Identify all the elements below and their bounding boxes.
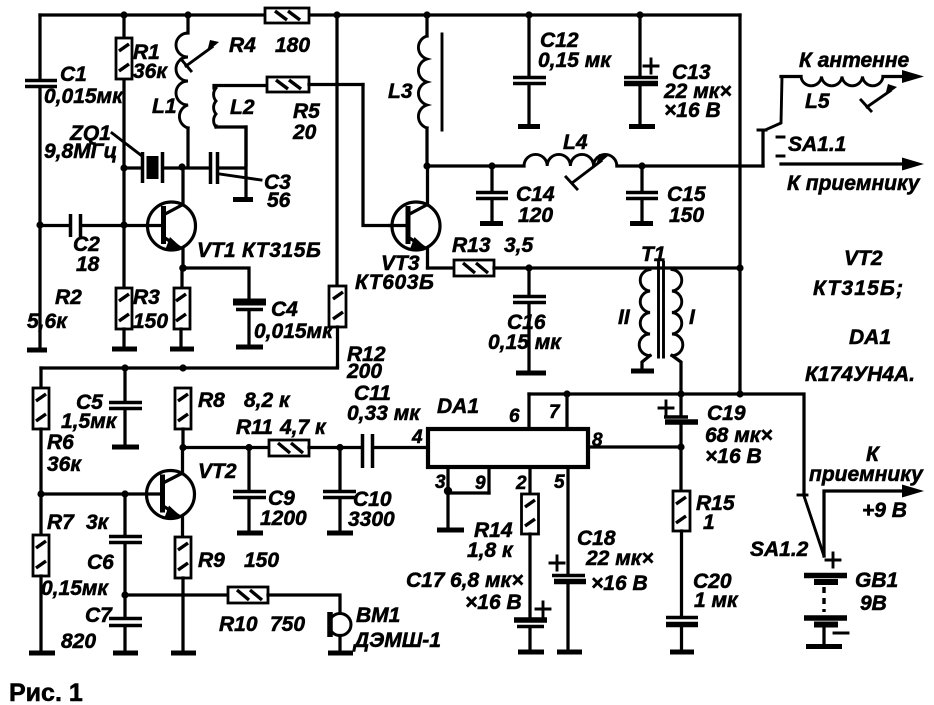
resistor R9 bbox=[175, 537, 191, 650]
svg-text:DA1: DA1 bbox=[437, 395, 479, 418]
junction dot L3 top bbox=[423, 11, 430, 18]
svg-text:150: 150 bbox=[244, 549, 279, 572]
quartz crystal ZQ1 bbox=[124, 152, 182, 183]
wire +9V branch bbox=[824, 491, 906, 556]
resistor R7 bbox=[33, 494, 49, 650]
junction dot C14 top bbox=[488, 162, 495, 169]
svg-text:К приемнику: К приемнику bbox=[787, 172, 921, 195]
arrow to receiver top bbox=[902, 158, 924, 171]
svg-text:К антенне: К антенне bbox=[799, 49, 910, 72]
resistor R12 bbox=[329, 286, 346, 366]
svg-text:VT2: VT2 bbox=[844, 247, 883, 270]
capacitor C11 bbox=[363, 434, 429, 468]
svg-text:120: 120 bbox=[518, 204, 553, 227]
resistor R11 bbox=[269, 440, 362, 456]
end bar under C17 bbox=[518, 650, 544, 655]
svg-text:1200: 1200 bbox=[260, 507, 307, 530]
transistor VT2 bbox=[41, 448, 195, 537]
svg-text:L2: L2 bbox=[230, 96, 255, 119]
resistor R10 bbox=[228, 587, 340, 613]
svg-text:R6: R6 bbox=[47, 431, 74, 454]
capacitor C17 electrolytic bbox=[514, 602, 550, 649]
transformer T1 winding I bbox=[672, 270, 683, 395]
battery GB1 bbox=[804, 553, 848, 644]
svg-text:L1: L1 bbox=[152, 95, 177, 118]
end bar under C5 bbox=[112, 445, 139, 450]
svg-text:R15: R15 bbox=[696, 492, 735, 515]
svg-text:0,15 мк: 0,15 мк bbox=[538, 49, 612, 72]
op-amp chip DA1 box bbox=[428, 429, 588, 467]
svg-text:×16 В: ×16 В bbox=[664, 99, 721, 122]
junction dot C10 top bbox=[336, 444, 343, 451]
junction dot R1 top bbox=[120, 11, 127, 18]
end bar under C9 bbox=[237, 531, 263, 536]
svg-text:8: 8 bbox=[592, 430, 603, 451]
capacitor C3 bbox=[211, 127, 247, 197]
end bar under C16 bbox=[516, 371, 546, 376]
ground bar under C4 bbox=[236, 345, 263, 350]
transistor VT1 bbox=[124, 168, 196, 268]
svg-text:3300: 3300 bbox=[348, 508, 395, 531]
svg-text:приемнику: приемнику bbox=[809, 463, 924, 486]
svg-text:Рис. 1: Рис. 1 bbox=[9, 679, 83, 705]
svg-text:VT1: VT1 bbox=[197, 239, 236, 262]
label K priemniku bottom bbox=[809, 443, 924, 486]
svg-text:1: 1 bbox=[703, 511, 715, 534]
wire VT1 emitter to C4 bbox=[183, 268, 249, 299]
contact ticks SA1.1 bbox=[777, 137, 784, 156]
end bar under C20 bbox=[670, 650, 694, 655]
junction dot R8 R11 bbox=[179, 444, 186, 451]
capacitor C15 bbox=[626, 166, 658, 221]
svg-text:С6: С6 bbox=[87, 551, 114, 574]
wire top rail bbox=[40, 13, 740, 16]
svg-text:L4: L4 bbox=[563, 131, 588, 154]
svg-text:С17: С17 bbox=[406, 569, 446, 592]
svg-text:7: 7 bbox=[549, 402, 561, 423]
capacitor C20 bbox=[666, 618, 698, 650]
junction dot main vertical supply bbox=[736, 390, 743, 397]
pin 2 wire bbox=[528, 467, 531, 494]
label ZQ1 with leader bbox=[44, 122, 142, 163]
svg-text:SA1.2: SA1.2 bbox=[750, 538, 809, 561]
svg-text:9: 9 bbox=[475, 473, 486, 494]
wire receiver line top bbox=[781, 162, 906, 165]
resistor R13 bbox=[428, 260, 741, 276]
svg-text:9,8МГц: 9,8МГц bbox=[44, 140, 117, 163]
pin 6 wire bbox=[527, 394, 530, 429]
junction dot crystal left bbox=[120, 164, 127, 171]
end bar under C12 bbox=[518, 124, 540, 129]
svg-text:18: 18 bbox=[76, 253, 100, 276]
svg-text:II: II bbox=[618, 306, 631, 329]
svg-text:0,33 мк: 0,33 мк bbox=[347, 402, 421, 425]
svg-text:6: 6 bbox=[509, 406, 520, 427]
ground bar under R9 bbox=[171, 651, 196, 656]
junction dot C5 top bbox=[121, 364, 128, 371]
capacitor C13 electrolytic bbox=[624, 15, 658, 124]
inductor L3 bbox=[418, 15, 442, 166]
junction dot C12 top bbox=[525, 11, 532, 18]
junction dot C16 top bbox=[525, 264, 532, 271]
junction dot pin3 node bbox=[444, 487, 452, 495]
junction dot L1 top bbox=[184, 11, 191, 18]
end bar under C10 bbox=[327, 531, 353, 536]
svg-text:R11: R11 bbox=[236, 416, 273, 439]
svg-text:VT2: VT2 bbox=[198, 460, 237, 483]
svg-text:750: 750 bbox=[270, 613, 305, 636]
svg-text:К174УН4А.: К174УН4А. bbox=[805, 363, 915, 386]
capacitor C6 bbox=[109, 494, 142, 595]
svg-text:9В: 9В bbox=[860, 592, 887, 615]
inductor L4 tunable bbox=[524, 154, 763, 189]
junction dot node A bbox=[178, 163, 185, 170]
svg-text:×16 В: ×16 В bbox=[465, 591, 522, 614]
svg-text:180: 180 bbox=[275, 34, 310, 57]
junction dot pin8 C19 bbox=[677, 443, 684, 450]
ground bar under C1 column bbox=[27, 348, 47, 353]
svg-text:3к: 3к bbox=[86, 511, 110, 534]
resistor R2 bbox=[116, 288, 132, 346]
capacitor C12 bbox=[513, 15, 546, 124]
junction dot C19 top bbox=[677, 390, 684, 397]
wire C7 node to R10 bbox=[125, 593, 228, 596]
svg-text:4: 4 bbox=[411, 427, 423, 448]
svg-text:0,15мк: 0,15мк bbox=[41, 577, 109, 600]
junction dot C13 top bbox=[636, 11, 643, 18]
inductor L1 tunable bbox=[176, 15, 188, 167]
junction dot C15 top bbox=[638, 162, 645, 169]
svg-text:R9: R9 bbox=[198, 549, 225, 572]
resistor R6 bbox=[33, 368, 49, 494]
resistor R1 bbox=[116, 15, 132, 168]
capacitor C1 bbox=[25, 81, 57, 87]
ground bar under T1 II bbox=[631, 369, 654, 374]
svg-text:С14: С14 bbox=[516, 183, 555, 206]
svg-text:Т1: Т1 bbox=[641, 243, 666, 266]
svg-text:ДЭМШ-1: ДЭМШ-1 bbox=[352, 629, 441, 652]
resistor R14 bbox=[522, 494, 539, 616]
svg-text:36к: 36к bbox=[133, 60, 168, 83]
inductor L2 bbox=[214, 86, 267, 166]
capacitor C4 bbox=[233, 302, 266, 344]
svg-text:0,015мк: 0,015мк bbox=[44, 85, 124, 108]
svg-text:L3: L3 bbox=[388, 80, 413, 103]
svg-text:68 мк×: 68 мк× bbox=[705, 424, 773, 447]
pin 7 wire bbox=[565, 394, 568, 429]
svg-text:1,5мк: 1,5мк bbox=[61, 410, 118, 433]
svg-text:×16 В: ×16 В bbox=[591, 572, 648, 595]
svg-text:150: 150 bbox=[133, 310, 168, 333]
junction dot T1 top right bbox=[736, 264, 743, 271]
junction dot VT1 emitter bbox=[179, 264, 187, 272]
resistor R5 bbox=[267, 77, 363, 92]
svg-text:×16 В: ×16 В bbox=[705, 445, 762, 468]
svg-text:4,7 к: 4,7 к bbox=[279, 416, 327, 439]
wire main right vertical bbox=[738, 15, 741, 395]
junction dot VT2 base left bbox=[37, 490, 44, 497]
arrow to receiver +9V bbox=[902, 485, 924, 498]
ground bar under R7 bbox=[29, 651, 55, 656]
capacitor C10 bbox=[323, 448, 356, 530]
ground bar under BM1 bbox=[328, 651, 353, 656]
pin 8 wire bbox=[588, 445, 682, 448]
svg-text:L5: L5 bbox=[805, 90, 830, 113]
junction dot VT1 base bbox=[120, 221, 127, 228]
svg-text:R13: R13 bbox=[452, 234, 491, 257]
resistor R3 bbox=[174, 268, 190, 346]
svg-text:КТ603Б: КТ603Б bbox=[355, 271, 435, 294]
capacitor C7 bbox=[109, 595, 142, 650]
wire R12 column from top rail bbox=[335, 15, 338, 286]
svg-text:36к: 36к bbox=[47, 453, 82, 476]
svg-text:0,015мк: 0,015мк bbox=[254, 320, 334, 343]
label C3 with leader bbox=[220, 171, 291, 212]
svg-text:GB1: GB1 bbox=[855, 569, 898, 592]
junction dot R12 top bbox=[333, 11, 340, 18]
wire supply bar pins 6-7 to switch bbox=[529, 394, 804, 494]
capacitor C19 electrolytic bbox=[659, 394, 698, 447]
capacitor C16 bbox=[513, 268, 546, 370]
pin 3 wire bbox=[448, 467, 489, 527]
capacitor C18 electrolytic bbox=[550, 556, 586, 649]
capacitor C14 bbox=[476, 166, 508, 221]
end bar under GB1 bbox=[806, 644, 842, 649]
svg-text:SA1.1: SA1.1 bbox=[788, 133, 846, 156]
svg-text:С1: С1 bbox=[60, 63, 87, 86]
capacitor C2 bbox=[40, 214, 124, 237]
ground bar under pin3 bbox=[437, 528, 464, 533]
junction dot C9 top bbox=[245, 444, 252, 451]
wire left column C1-C2-ground bbox=[38, 15, 41, 348]
svg-text:С15: С15 bbox=[667, 183, 706, 206]
wire lower rail bbox=[41, 366, 338, 368]
junction dot R8 top bbox=[179, 364, 186, 371]
svg-text:+9 В: +9 В bbox=[862, 499, 907, 522]
svg-text:5,6к: 5,6к bbox=[27, 310, 68, 333]
wire VT3 collector node to L4 bbox=[427, 164, 524, 167]
label VT2 type note bbox=[813, 247, 904, 300]
pin 5 wire bbox=[566, 467, 569, 575]
ground bar under C7 bbox=[113, 651, 138, 656]
capacitor C5 bbox=[109, 368, 142, 444]
svg-text:R2: R2 bbox=[55, 286, 82, 309]
svg-text:R4: R4 bbox=[229, 34, 256, 57]
svg-text:DA1: DA1 bbox=[849, 326, 891, 349]
inductor L5 tunable bbox=[801, 77, 906, 112]
pin 9 wire bbox=[487, 467, 490, 493]
svg-text:820: 820 bbox=[61, 630, 96, 653]
svg-text:20: 20 bbox=[292, 121, 317, 144]
end bar under C15 bbox=[630, 221, 653, 226]
capacitor C9 bbox=[233, 448, 266, 530]
svg-text:150: 150 bbox=[669, 204, 704, 227]
end bar under C14 bbox=[480, 221, 503, 226]
svg-text:0,15 мк: 0,15 мк bbox=[488, 331, 562, 354]
svg-text:R3: R3 bbox=[133, 286, 160, 309]
L1 trimmer arrow bbox=[181, 40, 219, 71]
resistor R8 bbox=[175, 388, 191, 448]
switch SA1.2 bbox=[798, 495, 824, 556]
resistor R4 bbox=[265, 8, 309, 23]
wire node A crystal-collector-L1 bbox=[182, 166, 210, 169]
svg-text:3,5: 3,5 bbox=[504, 234, 534, 257]
svg-text:R10: R10 bbox=[219, 613, 258, 636]
junction dot L3 bottom bbox=[423, 162, 430, 169]
transformer T1 core bbox=[659, 262, 664, 357]
svg-text:200: 200 bbox=[346, 360, 382, 383]
junction dot C6 top bbox=[121, 490, 128, 497]
ground bar under R3 bbox=[170, 347, 194, 352]
resistor R15 bbox=[673, 447, 690, 617]
svg-text:2: 2 bbox=[515, 473, 527, 494]
svg-text:КТ315Б: КТ315Б bbox=[242, 239, 322, 262]
svg-text:R8: R8 bbox=[198, 389, 225, 412]
svg-text:6,8 мк×: 6,8 мк× bbox=[450, 569, 523, 592]
svg-text:С7: С7 bbox=[85, 604, 113, 627]
ground bar under R2 bbox=[112, 347, 137, 352]
svg-text:КТ315Б;: КТ315Б; bbox=[813, 277, 904, 300]
arrow to antenna bbox=[902, 70, 924, 83]
svg-text:С19: С19 bbox=[707, 402, 746, 425]
svg-text:R7: R7 bbox=[47, 511, 75, 534]
wire collector node to R11 bbox=[183, 446, 269, 449]
svg-text:56: 56 bbox=[267, 189, 291, 212]
svg-text:ВМ1: ВМ1 bbox=[356, 604, 400, 627]
junction dot pin7 top bbox=[563, 390, 570, 397]
svg-text:С4: С4 bbox=[271, 298, 298, 321]
wire R1 to R2 column bbox=[122, 168, 125, 288]
end bar under C3 bbox=[233, 197, 253, 202]
end bar under C13 bbox=[629, 124, 655, 129]
svg-text:1,8 к: 1,8 к bbox=[467, 539, 514, 562]
svg-text:5: 5 bbox=[554, 472, 565, 493]
transistor VT3 bbox=[390, 166, 440, 268]
junction dot C7 top bbox=[121, 591, 128, 598]
transformer T1 winding II bbox=[639, 270, 650, 369]
switch SA1.1 bbox=[758, 77, 801, 167]
svg-text:22 мк×: 22 мк× bbox=[585, 547, 654, 570]
svg-text:8,2 к: 8,2 к bbox=[244, 389, 291, 412]
svg-text:R5: R5 bbox=[293, 100, 320, 123]
end bar under C18 bbox=[557, 650, 582, 655]
microphone BM1 bbox=[329, 612, 351, 650]
svg-text:1 мк: 1 мк bbox=[694, 589, 739, 612]
junction dot C2 left bbox=[36, 221, 43, 228]
wire R5 down to VT3 base bbox=[363, 85, 390, 226]
